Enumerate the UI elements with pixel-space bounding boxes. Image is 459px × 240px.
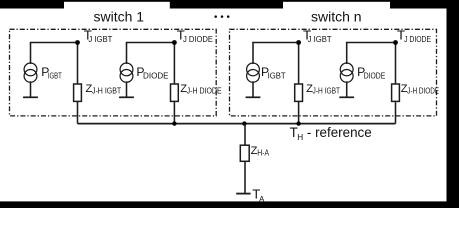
svg-text:switch n: switch n (311, 9, 362, 25)
svg-text:switch 1: switch 1 (94, 9, 145, 25)
